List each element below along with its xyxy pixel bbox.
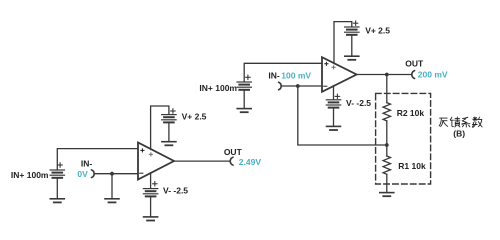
ground (right IN+ source)	[237, 109, 251, 113]
svg-text:IN+ 100m: IN+ 100m	[11, 170, 49, 180]
node: output to feedback junction	[385, 73, 389, 77]
op-amp OP2 (right)	[322, 57, 357, 92]
wire: left V+ source to ground	[168, 123, 170, 141]
wire: right V- source to ground	[333, 109, 335, 127]
voltage source V- -2.5 (right)	[326, 94, 340, 107]
wire: left IN+ source to op-amp non-inverting input	[57, 149, 137, 170]
ground (right V- source)	[327, 126, 341, 130]
wire: left V- source to ground	[150, 197, 152, 216]
op-amp OP1 (left)	[138, 143, 174, 180]
svg-text:2.49V: 2.49V	[239, 157, 262, 167]
ground (feedback divider)	[380, 193, 394, 197]
wire: left IN- junction to ground	[111, 174, 113, 199]
svg-text:OUT: OUT	[405, 59, 424, 69]
output pin symbol (left OUT)	[230, 157, 233, 165]
ground (right V+ source)	[345, 56, 359, 60]
svg-text:(B): (B)	[453, 129, 465, 139]
svg-text:V- -2.5: V- -2.5	[163, 186, 188, 196]
svg-text:IN-: IN-	[268, 71, 280, 81]
voltage source V+ 2.5 (right)	[345, 21, 359, 35]
wire: left op-amp output	[174, 160, 230, 162]
wire: right V+ source to ground	[351, 36, 353, 56]
svg-text:IN-: IN-	[81, 159, 93, 169]
svg-text:100 mV: 100 mV	[281, 71, 311, 81]
svg-text:V+ 2.5: V+ 2.5	[365, 26, 390, 36]
input pin symbol (right IN-)	[279, 82, 282, 90]
voltage source VG2 IN+ 100m (right)	[237, 75, 251, 90]
wire: left op-amp V- pin	[150, 173, 152, 188]
wire: right op-amp V+ pin	[334, 22, 352, 64]
ground (left V- source)	[144, 217, 158, 221]
label 反馈系数 (feedback factor, hand-drawn glyphs)	[439, 117, 482, 127]
wire: R2 to divider tap	[386, 121, 388, 145]
wire: right IN+ source to ground	[243, 91, 245, 109]
voltage source V- -2.5 (left)	[143, 182, 157, 197]
feedback network dashed box	[376, 93, 431, 184]
wire: left IN- pin to op-amp inverting input	[94, 173, 137, 175]
svg-text:200 mV: 200 mV	[418, 69, 448, 79]
svg-text:V+ 2.5: V+ 2.5	[182, 112, 207, 122]
node: right IN- junction	[296, 84, 300, 88]
svg-text:R2 10k: R2 10k	[397, 108, 425, 118]
wire: OUT node into R2	[386, 75, 388, 103]
svg-text:IN+ 100m: IN+ 100m	[199, 83, 237, 93]
ground (left IN+ source)	[50, 199, 64, 203]
wire: tap to R1	[386, 145, 388, 156]
input pin symbol (left IN-)	[91, 170, 94, 178]
resistor R2 10k	[383, 103, 390, 121]
wire: R1 to ground	[386, 174, 388, 192]
node: left IN- junction	[110, 172, 114, 176]
svg-text:OUT: OUT	[224, 147, 243, 157]
node: divider tap junction	[385, 143, 389, 147]
wire: right op-amp V- pin	[333, 86, 335, 99]
wire: right op-amp output	[357, 74, 412, 76]
ground (left IN- node)	[105, 199, 119, 203]
voltage source VG1 IN+ 100m (left)	[50, 163, 64, 178]
wire: right IN- junction down to feedback divider tap	[298, 86, 387, 145]
svg-text:R1 10k: R1 10k	[398, 161, 426, 171]
ground (left V+ source)	[162, 142, 176, 146]
svg-text:V- -2.5: V- -2.5	[346, 98, 371, 108]
resistor R1 10k	[383, 156, 390, 174]
output pin symbol (right OUT)	[412, 71, 415, 79]
wire: right IN+ source to op-amp non-inverting input	[244, 63, 321, 82]
wire: left IN+ source to ground	[56, 179, 58, 199]
wire: left op-amp V+ pin	[151, 106, 169, 150]
svg-text:0V: 0V	[77, 169, 88, 179]
voltage source V+ 2.5 (left)	[162, 109, 176, 123]
wire: right IN- pin to op-amp inverting input	[281, 85, 321, 87]
